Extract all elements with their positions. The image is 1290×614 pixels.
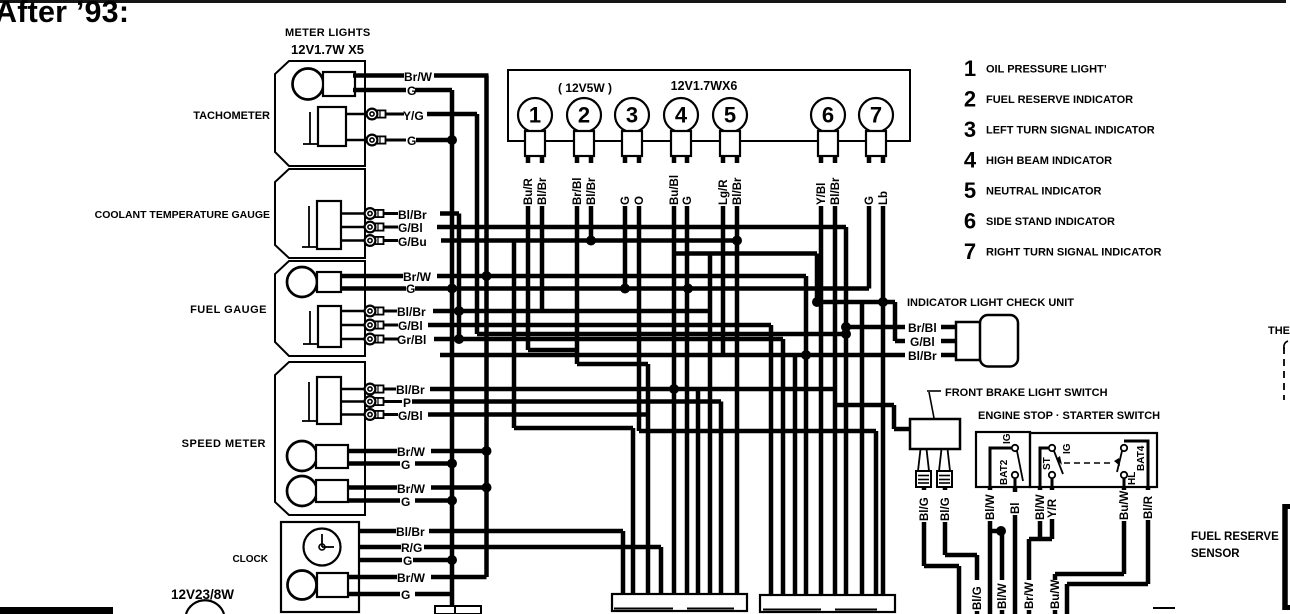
wire x783 from fuel Gr/Bl <box>781 339 786 595</box>
svg-text:Br/W: Br/W <box>397 482 426 496</box>
connector block A <box>612 594 747 611</box>
label G lamp <box>619 163 632 206</box>
svg-text:7: 7 <box>964 239 976 264</box>
switch section1 feed <box>990 448 1011 487</box>
svg-text:Y/R: Y/R <box>1047 498 1059 518</box>
svg-text:Br/W: Br/W <box>1024 582 1036 609</box>
svg-text:Bl/Br: Bl/Br <box>397 305 426 319</box>
indicator lamp 3 <box>615 98 649 132</box>
svg-text:R/G: R/G <box>401 541 422 555</box>
svg-text:Bl/R: Bl/R <box>1143 495 1155 519</box>
svg-text:CLOCK: CLOCK <box>232 554 268 565</box>
wire Lb lamp <box>881 156 886 595</box>
indicator lamp box <box>508 70 910 141</box>
stem s3 <box>1123 478 1126 487</box>
wire P speed <box>384 400 402 403</box>
svg-text:Bl: Bl <box>1010 503 1022 515</box>
junction Bl/W branch <box>996 526 1006 536</box>
svg-text:SPEED METER: SPEED METER <box>182 438 266 450</box>
wire x648 staircase drop <box>646 364 651 594</box>
wire x895 drop <box>893 302 898 341</box>
svg-text:G: G <box>401 495 410 509</box>
svg-text:G/Bl: G/Bl <box>398 319 423 333</box>
connector block C <box>760 595 895 612</box>
clock unit box <box>281 522 359 612</box>
wire y334 Y/G run <box>477 332 846 337</box>
bottom-left black bar <box>0 607 113 614</box>
svg-text:G: G <box>864 196 876 205</box>
wire staircase y364 <box>577 362 648 367</box>
wire x721 riser <box>719 402 724 595</box>
wire G/Bl speed <box>384 413 398 416</box>
svg-text:Lg/R: Lg/R <box>718 179 730 205</box>
svg-text:G: G <box>407 84 416 98</box>
svg-text:Bl/W: Bl/W <box>997 583 1009 609</box>
ring terminal G <box>346 139 368 142</box>
svg-text:INDICATOR LIGHT CHECK UNIT: INDICATOR LIGHT CHECK UNIT <box>907 297 1074 309</box>
svg-text:FUEL RESERVE: FUEL RESERVE <box>1191 531 1279 543</box>
wire G/Bu coolant long <box>384 239 398 242</box>
junction G bus tacho <box>447 135 457 145</box>
svg-text:Bl/Br: Bl/Br <box>396 525 425 539</box>
switch section3 feed <box>1124 441 1148 487</box>
contact IG top s1 <box>1012 445 1018 451</box>
svg-text:Bl/Br: Bl/Br <box>908 349 937 363</box>
label Y/R s2 <box>1046 490 1059 519</box>
svg-text:Bu/R: Bu/R <box>523 177 535 205</box>
wire y253 run <box>674 251 817 256</box>
junction Br/W bus speed1 <box>482 446 492 456</box>
svg-text:HIGH BEAM INDICATOR: HIGH BEAM INDICATOR <box>986 155 1112 167</box>
ring terminal G/Bl speed <box>341 413 366 416</box>
svg-text:4: 4 <box>964 148 977 173</box>
wire x846 from coolant G/Bl <box>844 227 849 595</box>
label Bl/Br lamp <box>585 163 598 206</box>
svg-text:G: G <box>401 588 410 602</box>
dashed stub right edge <box>1283 347 1285 400</box>
wire x698 from speed Bl/Br <box>696 389 701 594</box>
junction G bus speed1 <box>447 459 457 469</box>
svg-text:Br/W: Br/W <box>404 70 433 84</box>
svg-text:Bl/Br: Bl/Br <box>537 177 549 205</box>
wire x633 from y428 <box>631 428 636 594</box>
svg-text:4: 4 <box>675 103 688 128</box>
tachometer unit box <box>275 61 365 166</box>
wire Bl/Br lamp <box>540 156 545 311</box>
clock bulb <box>288 571 317 600</box>
wire Y/G vertical <box>475 114 480 334</box>
ring terminal Y/G <box>346 113 368 116</box>
label Bu/W bottom <box>1049 580 1062 610</box>
label Bu/W s3 <box>1118 490 1131 521</box>
wire Y/Bl lamp <box>819 156 824 595</box>
svg-text:NEUTRAL INDICATOR: NEUTRAL INDICATOR <box>986 186 1102 198</box>
speed gauge <box>317 377 341 424</box>
svg-text:P: P <box>403 396 411 410</box>
svg-text:Bl/Br: Bl/Br <box>586 177 598 205</box>
svg-text:Bl/G: Bl/G <box>972 586 984 610</box>
small connector bottom <box>435 606 481 614</box>
junction G bus speed2 <box>447 496 457 506</box>
wire Bu/Bl lamp <box>672 156 677 594</box>
svg-text:SIDE STAND INDICATOR: SIDE STAND INDICATOR <box>986 216 1115 228</box>
switch blade s3 <box>1117 451 1122 472</box>
svg-text:BAT4: BAT4 <box>1136 445 1147 471</box>
junction Br/W bus speed2 <box>482 483 492 493</box>
svg-text:G/Bl: G/Bl <box>910 335 935 349</box>
coolant gauge unit box <box>275 169 365 258</box>
svg-text:G/Bl: G/Bl <box>398 409 423 423</box>
junction Lb y302 <box>878 297 888 307</box>
switch blade s2 <box>1054 451 1063 474</box>
wire G tacho <box>353 88 406 93</box>
junction G bus clock <box>447 555 457 565</box>
wire Bl s1 <box>1013 487 1018 614</box>
wire Br/Bl check unit <box>846 325 905 330</box>
wire Bl/Br lamp <box>589 156 594 241</box>
svg-text:BAT2: BAT2 <box>999 459 1010 485</box>
wire Bl/W s1 <box>988 487 993 614</box>
svg-text:COOLANT TEMPERATURE GAUGE: COOLANT TEMPERATURE GAUGE <box>95 209 270 221</box>
wire Br/W speed2 <box>348 485 397 490</box>
wire G lamp <box>623 156 628 289</box>
svg-text:3: 3 <box>626 103 638 128</box>
ganged switch dashed link <box>1064 462 1114 464</box>
wire x795 riser <box>793 355 798 595</box>
wire Lg/R lamp <box>721 156 726 355</box>
fuel bulb <box>287 267 317 297</box>
label Y/Bl lamp <box>815 163 828 206</box>
wire Bl/Br lamp <box>833 156 838 595</box>
ring terminal Bl/Br fuel <box>341 310 366 313</box>
wire x623 from clock Bl/Br <box>621 531 626 594</box>
fuel gauge <box>318 306 341 347</box>
wire Bl/Br lamp <box>735 156 740 594</box>
wire Br/Bl lamp <box>575 156 580 364</box>
label Lg/R lamp <box>717 163 730 206</box>
svg-text:Y/G: Y/G <box>403 109 424 123</box>
contact BAT2 s1 <box>1012 472 1018 478</box>
wire vertical x514 <box>512 241 517 429</box>
tachometer bulb <box>293 69 324 100</box>
wire Bl/Br coolant <box>384 212 398 215</box>
wire G lamp <box>685 156 690 594</box>
label Bl/Br lamp <box>536 163 549 206</box>
wire Bu/R lamp <box>526 156 531 350</box>
svg-text:THE: THE <box>1268 325 1290 337</box>
svg-text:7: 7 <box>870 103 882 128</box>
wire Br/W tacho <box>353 73 404 78</box>
junction Bl/Br fuel x459 <box>454 306 464 316</box>
svg-text:TACHOMETER: TACHOMETER <box>193 110 270 122</box>
partial bulb circle under 12V23/8W <box>186 600 224 614</box>
contact IG top s2 <box>1049 445 1055 451</box>
junction y355 x806 <box>801 350 811 360</box>
wire Bu/W s3 <box>1122 487 1127 574</box>
wire Bl/W s2 <box>1038 487 1043 539</box>
wire y431 run O <box>639 429 876 434</box>
wire x710 from y253 run <box>708 254 713 595</box>
svg-text:Bl/Br: Bl/Br <box>396 383 425 397</box>
wire Y/G <box>386 113 404 116</box>
label Bl/W s1 <box>984 490 997 521</box>
svg-text:ST: ST <box>1042 457 1053 470</box>
coolant gauge <box>317 201 341 249</box>
wire Bl/Br speed <box>384 388 396 391</box>
svg-text:IG: IG <box>1062 443 1073 454</box>
svg-text:IG: IG <box>1002 433 1013 444</box>
svg-text:G/Bu: G/Bu <box>398 235 427 249</box>
wire x876 from O wire <box>874 431 879 595</box>
wire G/Bl fuel <box>384 324 398 327</box>
svg-text:5: 5 <box>724 103 736 128</box>
wire G fuel <box>341 286 406 291</box>
svg-text:1: 1 <box>964 56 976 81</box>
wire x771 from fuel G/Bl <box>769 325 774 595</box>
speed meter unit box <box>275 362 365 515</box>
switch blade s1 <box>1017 451 1023 481</box>
wire y428 run <box>514 426 633 431</box>
svg-text:Bu/W: Bu/W <box>1119 490 1131 520</box>
svg-text:G: G <box>403 554 412 568</box>
label Bl/Br lamp <box>829 163 842 206</box>
svg-text:LEFT TURN SIGNAL INDICATOR: LEFT TURN SIGNAL INDICATOR <box>986 125 1155 137</box>
junction Br/Bl x846 <box>841 322 851 332</box>
junction G/Bu lamp2 <box>586 236 596 246</box>
svg-text:After ’93:: After ’93: <box>0 0 129 29</box>
indicator lamp 7 <box>859 98 893 132</box>
indicator lamp 1 <box>518 98 552 132</box>
wire Bl/Br fuel <box>384 310 397 313</box>
contact ST s2 <box>1049 472 1055 478</box>
junction x817 y302 <box>812 297 822 307</box>
svg-text:SENSOR: SENSOR <box>1191 548 1240 560</box>
contact HL s3 <box>1121 472 1127 478</box>
svg-text:Bl/Br: Bl/Br <box>732 177 744 205</box>
ring terminal Gr/Bl fuel <box>341 338 366 341</box>
engine switch box left <box>976 432 1030 487</box>
junction G lamp4 <box>683 284 693 294</box>
label Bl/G brake1 <box>918 490 931 522</box>
svg-text:6: 6 <box>822 103 834 128</box>
wire G speed1 <box>348 461 400 466</box>
brake switch body <box>910 419 960 449</box>
wire G/Bl coolant <box>384 226 398 229</box>
brake terminal 2 <box>939 449 942 471</box>
svg-text:2: 2 <box>578 103 590 128</box>
svg-text:G: G <box>406 282 415 296</box>
junction G lamp3 <box>620 284 630 294</box>
svg-text:FUEL RESERVE INDICATOR: FUEL RESERVE INDICATOR <box>986 94 1133 106</box>
svg-text:Bl/Br: Bl/Br <box>830 177 842 205</box>
label Br/W bottom <box>1023 580 1036 610</box>
engine switch box right <box>1030 433 1157 487</box>
wire R/G clock <box>359 545 401 550</box>
svg-text:12V1.7W X5: 12V1.7W X5 <box>291 42 364 57</box>
junction Bu/Bl lamp4 speed <box>669 384 679 394</box>
wire Br/W clock <box>348 575 397 580</box>
wire Bl/R s3 <box>1146 487 1151 584</box>
svg-text:Bl/W: Bl/W <box>985 494 997 520</box>
clock face <box>304 529 341 566</box>
ring terminal Bl/Br speed <box>341 388 366 391</box>
page top border <box>0 0 1286 3</box>
label G lamp <box>681 163 694 206</box>
wire staircase y350 <box>528 348 577 353</box>
svg-text:FUEL GAUGE: FUEL GAUGE <box>190 304 267 316</box>
svg-text:OIL PRESSURE LIGHT’: OIL PRESSURE LIGHT’ <box>986 64 1107 76</box>
svg-text:Bu/W: Bu/W <box>1050 579 1062 609</box>
svg-text:12V1.7WX6: 12V1.7WX6 <box>671 79 738 93</box>
wire brake feed <box>835 403 894 408</box>
wire Bl/W branch <box>990 529 1002 534</box>
svg-text:3: 3 <box>964 117 976 142</box>
check unit body <box>956 322 984 360</box>
indicator lamp 6 <box>811 98 845 132</box>
wire G lamp <box>867 156 872 289</box>
svg-text:Gr/Bl: Gr/Bl <box>397 333 426 347</box>
wire O lamp <box>637 156 642 431</box>
wire G bus vertical <box>450 90 455 607</box>
label G lamp <box>863 163 876 206</box>
wire y302 jog <box>817 300 895 305</box>
wire Bl/G brake1 <box>922 487 927 566</box>
svg-text:Bl/G: Bl/G <box>919 497 931 521</box>
wire Bl/Br check unit long <box>440 353 905 358</box>
junction G/Bu lamp5 <box>732 236 742 246</box>
svg-text:Bl/Br: Bl/Br <box>398 208 427 222</box>
indicator lamp 4 <box>664 98 698 132</box>
indicator lamp 5 <box>713 98 747 132</box>
contact top s3 <box>1121 445 1127 451</box>
wire Y/R s2 <box>1050 487 1055 539</box>
junction Br/W bus fuel <box>482 271 492 281</box>
svg-text:Y/Bl: Y/Bl <box>816 183 828 205</box>
ring terminal G/Bu <box>341 239 366 242</box>
svg-text:Bl/W: Bl/W <box>1035 494 1047 520</box>
wire G/Bl check unit <box>895 339 905 344</box>
label Bl/W s2 <box>1034 490 1047 521</box>
wire Bl/Br clock <box>359 529 396 534</box>
stem s1 <box>1014 478 1017 487</box>
wire G tacho2 <box>386 139 406 142</box>
svg-text:Br/W: Br/W <box>397 571 426 585</box>
label Br/Bl lamp <box>571 163 584 206</box>
speed bulb 2 <box>287 476 317 506</box>
svg-text:HL: HL <box>1127 472 1138 485</box>
wire x862 riser <box>860 302 865 595</box>
label Bl/R s3 <box>1142 490 1155 520</box>
ring terminal P speed <box>341 400 366 403</box>
wire Br/W bus vertical <box>484 76 489 578</box>
brake switch pointer <box>927 390 941 392</box>
svg-text:1: 1 <box>529 103 541 128</box>
svg-text:G: G <box>620 196 632 205</box>
fuel reserve sensor bracket <box>1282 504 1288 610</box>
label Bl/G bottom <box>971 580 984 611</box>
tachometer gauge <box>318 107 346 146</box>
wire G clock <box>359 558 402 563</box>
fuel gauge unit box <box>275 261 365 356</box>
wire Bl/Br coolant vertical <box>457 214 462 340</box>
svg-text:6: 6 <box>964 209 976 234</box>
svg-text:FRONT BRAKE LIGHT SWITCH: FRONT BRAKE LIGHT SWITCH <box>945 387 1108 399</box>
svg-text:Bu/Bl: Bu/Bl <box>669 175 681 205</box>
switch section2 feed <box>1040 448 1048 487</box>
bottom right connector mark <box>1153 607 1175 609</box>
svg-text:Bl/G: Bl/G <box>940 497 952 521</box>
stem s2 <box>1051 478 1054 487</box>
speed bulb 1 <box>287 441 317 471</box>
wire x806 from fuel Br/W <box>804 276 809 595</box>
svg-text:G: G <box>682 196 694 205</box>
indicator lamp 2 <box>567 98 601 132</box>
svg-text:METER LIGHTS: METER LIGHTS <box>285 27 371 39</box>
label Bu/Bl lamp <box>668 163 681 206</box>
junction G bus fuel <box>447 284 457 294</box>
svg-text:5: 5 <box>964 178 976 203</box>
wire G clock2 <box>348 592 400 597</box>
svg-text:RIGHT TURN SIGNAL INDICATOR: RIGHT TURN SIGNAL INDICATOR <box>986 247 1161 259</box>
svg-text:Br/Bl: Br/Bl <box>572 178 584 205</box>
label Lb lamp <box>877 163 890 206</box>
label Bl/W bottom <box>996 580 1009 610</box>
svg-text:G/Bl: G/Bl <box>398 221 423 235</box>
brake terminal 1 <box>918 449 921 471</box>
wire x661 from clock R/G <box>659 547 664 594</box>
svg-text:Br/W: Br/W <box>397 445 426 459</box>
wire Br/W fuel <box>341 274 403 279</box>
wire Br/W speed1 <box>348 449 397 454</box>
svg-text:G: G <box>401 458 410 472</box>
label Bu/R lamp <box>522 163 535 206</box>
svg-text:O: O <box>634 196 646 205</box>
ring terminal G/Bl fuel <box>341 324 366 327</box>
junction Gr/Bl x459 <box>454 334 464 344</box>
label Bl s1b <box>1009 492 1022 515</box>
label Bl/Br lamp <box>731 163 744 206</box>
wire Gr/Bl fuel <box>384 338 398 341</box>
label O lamp <box>633 163 646 206</box>
wire G speed2 <box>348 498 400 503</box>
wire y539 jog <box>1029 537 1052 542</box>
svg-text:( 12V5W ): ( 12V5W ) <box>558 81 612 95</box>
svg-text:ENGINE STOP · STARTER SWITCH: ENGINE STOP · STARTER SWITCH <box>978 410 1160 422</box>
ring terminal Bl/Br <box>341 212 366 215</box>
ring terminal G/Bl <box>341 226 366 229</box>
svg-text:2: 2 <box>964 87 976 112</box>
junction y334 x846 <box>841 329 851 339</box>
label Bl/G brake2 <box>939 490 952 522</box>
svg-text:Lb: Lb <box>878 191 890 205</box>
svg-text:G: G <box>407 134 416 148</box>
wire x817 from y253 run <box>815 254 820 303</box>
svg-text:Br/Bl: Br/Bl <box>908 321 937 335</box>
wire Bl/G brake2 <box>943 487 948 555</box>
